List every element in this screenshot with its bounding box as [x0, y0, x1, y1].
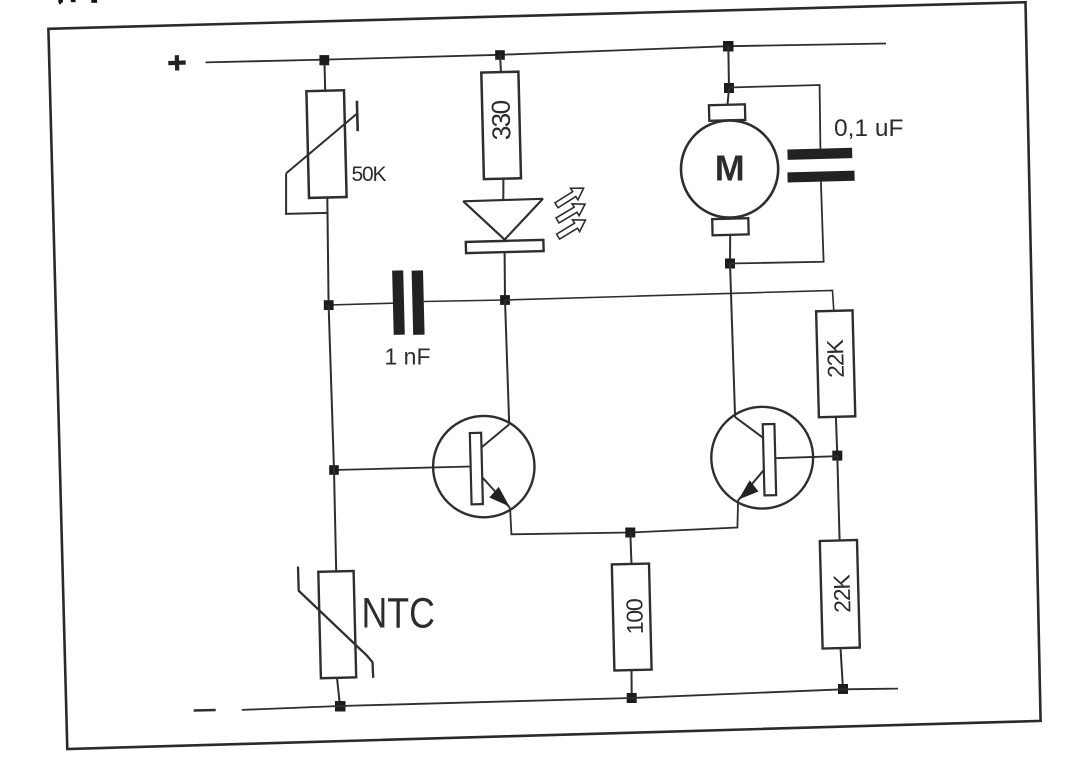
transistor Q1 emitter arrowhead — [489, 487, 509, 507]
wire 100 top lead — [630, 533, 631, 565]
capacitor 1nF right plate — [412, 270, 425, 335]
transistor Q2 base bar — [763, 424, 776, 495]
svg-text:330: 330 — [486, 100, 517, 141]
wire 22K upper bottom lead — [836, 417, 837, 456]
wire NTC bottom lead — [337, 678, 340, 706]
wire NTC chain upper — [329, 305, 334, 470]
wire emitter rail — [510, 500, 738, 534]
capacitor 1nF left plate — [392, 270, 405, 335]
potentiometer 50K wiper arrow — [286, 114, 356, 173]
wire bottom rail — [242, 689, 898, 710]
transistor Q2 emitter stroke — [738, 470, 764, 500]
capacitor C 0,1uF top plate — [787, 148, 852, 160]
transistor Q1 collector stroke — [482, 424, 509, 447]
node junction top rail / 50K — [319, 55, 329, 65]
potentiometer 50K wiper T-bar — [356, 101, 359, 132]
wire motor bottom to Q2 collector — [730, 264, 735, 418]
node junction top rail / motor — [723, 41, 734, 52]
thermistor NTC diagonal mark — [298, 567, 373, 678]
node junction mid rail / LED — [500, 295, 510, 305]
capacitor C 0,1uF bottom plate — [787, 171, 854, 183]
node junction top rail / 330 — [495, 50, 505, 60]
cropped text fragments at top edge — [58, 0, 97, 4]
LED D1 cathode bar — [466, 240, 544, 253]
wire Q1 base lead — [334, 467, 471, 471]
potentiometer 50K body — [306, 90, 346, 198]
node junction NTC / bottom rail — [335, 701, 346, 712]
transistor Q1 base bar — [470, 433, 483, 505]
node junction motor / capacitor branch — [724, 83, 734, 93]
node junction 22K lower / bottom rail — [838, 684, 848, 694]
wire top supply rail — [206, 44, 886, 63]
wire capacitor 0,1uF top branch — [729, 85, 820, 149]
wire mid rail left — [329, 303, 393, 305]
wire motor top lead — [727, 46, 730, 88]
resistor 22K upper body — [816, 310, 855, 417]
wire capacitor 0,1uF bottom branch — [730, 182, 824, 264]
resistor 22K lower body — [820, 540, 860, 649]
wire mid rail right — [505, 290, 834, 310]
node junction emitter rail / 100 — [625, 528, 635, 538]
svg-text:22K: 22K — [822, 338, 849, 378]
LED light arrow 2 — [554, 198, 589, 226]
plus terminal label — [168, 55, 185, 70]
resistor R330 body — [481, 72, 521, 179]
wire Q2 base lead — [775, 456, 837, 458]
node junction Q2 base / 22K — [832, 451, 842, 461]
node junction motor bottom — [725, 259, 735, 269]
node junction Q1 base / NTC chain — [329, 465, 339, 475]
transistor Q2 collector stroke — [735, 417, 764, 438]
node junction 100 / bottom rail — [627, 693, 637, 703]
node junction mid rail / 50K chain — [324, 300, 334, 310]
thermistor NTC body — [318, 571, 356, 678]
wire NTC chain lower — [334, 470, 336, 571]
wire 22K lower top lead — [837, 456, 839, 541]
minus terminal dash — [194, 709, 216, 712]
wire LED bottom lead — [504, 252, 506, 300]
svg-text:NTC: NTC — [362, 589, 435, 637]
svg-text:50K: 50K — [352, 163, 387, 186]
svg-text:100: 100 — [621, 599, 648, 635]
wire Q1 collector lead — [505, 300, 509, 424]
svg-text:M: M — [715, 147, 745, 188]
wire 100 bottom lead — [631, 670, 633, 698]
LED light arrow 1 — [553, 182, 587, 211]
svg-text:0,1 uF: 0,1 uF — [834, 115, 903, 142]
wire 330 bottom lead — [502, 179, 504, 201]
transistor Q1 circle — [433, 416, 534, 517]
wire mid rail center — [424, 300, 505, 302]
motor M1 bottom terminal — [712, 218, 749, 235]
wire 50K bottom lead — [327, 198, 328, 306]
wire motor bottom lead — [729, 235, 731, 264]
svg-text:1 nF: 1 nF — [385, 344, 431, 370]
resistor 100 body — [612, 564, 652, 671]
LED D1 triangle — [463, 199, 543, 240]
svg-text:22K: 22K — [828, 573, 855, 613]
transistor Q2 emitter arrowhead — [739, 480, 759, 499]
wire junction to motor terminal — [728, 88, 730, 105]
motor M1 top terminal — [709, 104, 745, 120]
wire 330 top lead — [500, 55, 501, 73]
transistor Q2 circle — [711, 407, 813, 509]
LED light arrow 3 — [555, 214, 590, 242]
wire 22K lower bottom lead — [841, 648, 844, 689]
motor M1 body — [681, 120, 778, 217]
wire 50K wiper to bottom lead — [286, 173, 328, 214]
transistor Q1 emitter stroke — [482, 477, 510, 508]
wire 50K top lead — [324, 63, 327, 91]
